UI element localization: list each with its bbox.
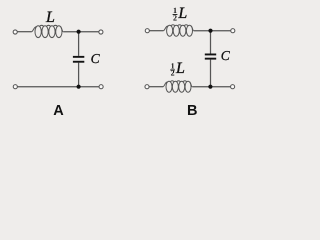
svg-text:A: A [53, 103, 64, 119]
wire cap leg upper A [78, 32, 80, 56]
wire cap leg lower B [210, 60, 212, 87]
svg-text:C: C [221, 48, 231, 63]
wire bottom-left B [149, 86, 163, 88]
node junction dot bottom B [208, 85, 212, 89]
wire top-right B [194, 30, 231, 32]
svg-text:L: L [45, 9, 55, 26]
wire top-left A [17, 31, 32, 33]
label half fraction top B [173, 5, 188, 23]
terminal B bottom-left [145, 85, 149, 89]
svg-text:B: B [187, 103, 197, 119]
label half fraction bottom B [170, 60, 185, 78]
wire cap leg lower A [78, 63, 80, 87]
wire cap leg upper B [210, 31, 212, 54]
inductor half-L bottom [163, 81, 192, 92]
node junction dot bottom A [77, 85, 81, 89]
terminal B top-left [145, 29, 149, 33]
terminal A bottom-right [99, 85, 103, 89]
wire top-right A [63, 31, 99, 33]
inductor L [32, 25, 64, 37]
terminal B top-right [231, 29, 235, 33]
wire top-left B [149, 30, 163, 32]
terminal B bottom-right [231, 85, 235, 89]
node junction dot top A [77, 30, 81, 34]
svg-text:L: L [175, 60, 185, 77]
svg-text:C: C [91, 51, 101, 66]
node junction dot top B [208, 29, 212, 33]
terminal A bottom-left [13, 85, 17, 89]
inductor half-L top [163, 25, 193, 36]
capacitor C plates A [73, 56, 84, 63]
svg-text:L: L [177, 5, 187, 22]
capacitor C plates B [205, 54, 216, 60]
terminal A top-right [99, 30, 103, 34]
wire bottom-right B [192, 86, 230, 88]
wire bottom A [17, 86, 99, 88]
terminal A top-left [13, 30, 17, 34]
